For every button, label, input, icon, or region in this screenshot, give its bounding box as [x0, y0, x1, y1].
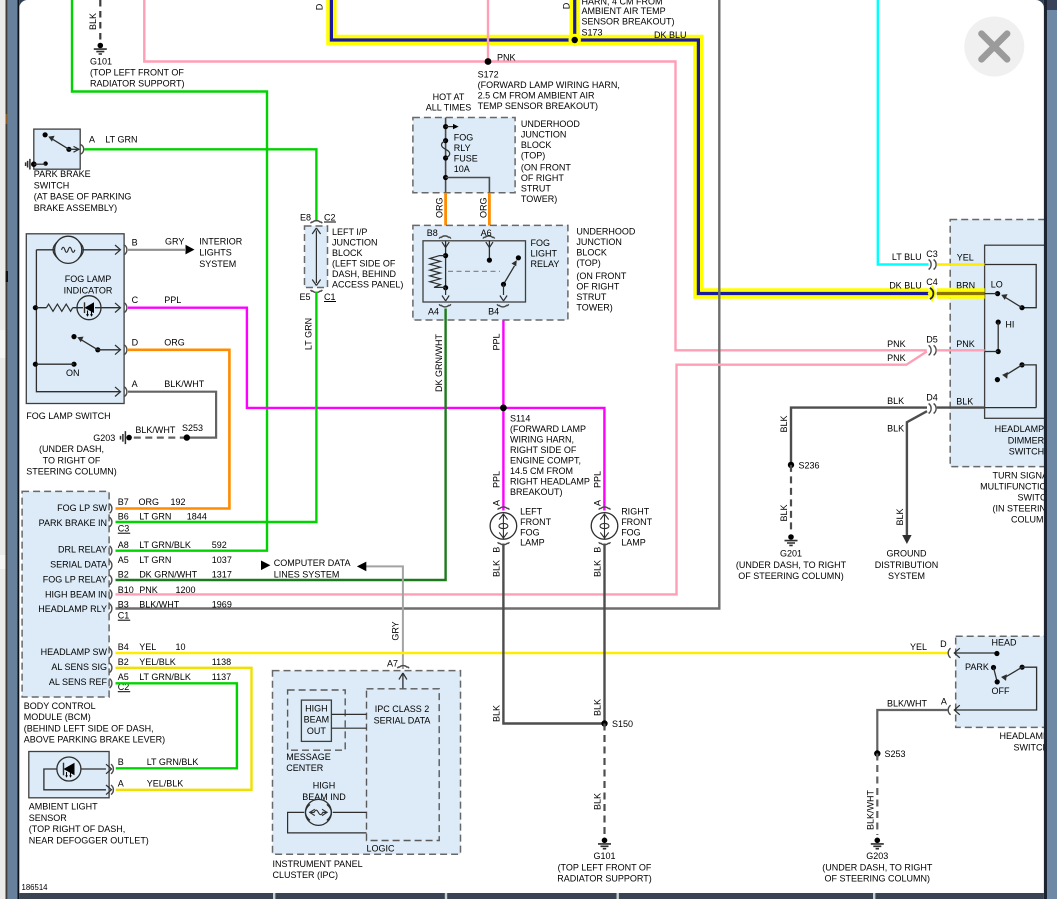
svg-text:HEAD: HEAD: [992, 638, 1018, 648]
svg-text:D: D: [132, 337, 139, 347]
svg-text:G203: G203: [93, 433, 115, 443]
wire BLK/WHT 1969 vertical from top to BCM B3: [116, 0, 720, 609]
svg-text:B8: B8: [427, 228, 438, 238]
connector C3 arcs: [929, 260, 937, 270]
page chrome: bottom bar: [19, 893, 1044, 899]
svg-text:FOG: FOG: [531, 238, 551, 248]
svg-text:C3: C3: [926, 249, 938, 259]
svg-text:(TOP LEFT FRONT OF: (TOP LEFT FRONT OF: [90, 68, 184, 78]
wire ORG fog switch D to BCM B7: [116, 350, 230, 509]
svg-text:(BEHIND LEFT SIDE OF DASH,: (BEHIND LEFT SIDE OF DASH,: [24, 723, 154, 733]
connector arc B8: [439, 236, 451, 239]
svg-text:SWITCH: SWITCH: [1009, 447, 1045, 457]
wire PNK BCM B10 to D5: [116, 352, 927, 595]
headlamp switch internals: [955, 651, 1037, 710]
svg-text:B: B: [492, 547, 502, 553]
ground distribution arrowhead: [902, 535, 911, 544]
svg-text:1317: 1317: [212, 569, 232, 579]
svg-text:G101: G101: [593, 851, 615, 861]
svg-text:AMBIENT AIR TEMP: AMBIENT AIR TEMP: [582, 6, 666, 16]
high beam out box: [301, 700, 331, 741]
label G203 right note: [822, 851, 933, 884]
svg-text:HEADLAMP SW: HEADLAMP SW: [41, 647, 108, 657]
svg-text:B4: B4: [488, 307, 499, 317]
label S172 note: [478, 70, 620, 112]
label FOG LIGHT RELAY: [531, 238, 560, 269]
wire LT GRN park brake to E8: [85, 149, 317, 221]
body control module BCM box: [22, 491, 109, 697]
svg-text:C1: C1: [324, 292, 336, 302]
svg-text:DRL RELAY: DRL RELAY: [58, 545, 107, 555]
ground G203 (right): [871, 838, 884, 849]
svg-text:D5: D5: [926, 335, 938, 345]
svg-text:DK GRN/WHT: DK GRN/WHT: [139, 569, 197, 579]
svg-text:LINES SYSTEM: LINES SYSTEM: [274, 569, 340, 579]
svg-text:HEADLAMP: HEADLAMP: [995, 424, 1045, 434]
svg-text:1844: 1844: [187, 512, 207, 522]
svg-text:A: A: [132, 379, 138, 389]
svg-text:FUSE: FUSE: [454, 153, 478, 163]
wires high beam out to logic: [331, 714, 366, 728]
label pin A / LT GRN (park brake): [89, 134, 137, 144]
svg-text:B6: B6: [118, 512, 129, 522]
label A5 LT GRN 1037: [118, 555, 232, 565]
svg-text:ABOVE PARKING BRAKE LEVER): ABOVE PARKING BRAKE LEVER): [24, 735, 165, 745]
ground G101 (top left): [94, 43, 107, 54]
svg-text:TEMP SENSOR BREAKOUT): TEMP SENSOR BREAKOUT): [478, 101, 598, 111]
wire LT GRN/BLK 592 A8 (DRL relay) long riser: [72, 0, 267, 551]
svg-text:RLY: RLY: [454, 143, 471, 153]
svg-text:BLK: BLK: [895, 508, 905, 525]
svg-text:A4: A4: [428, 307, 439, 317]
svg-text:A8: A8: [118, 540, 129, 550]
svg-text:RADIATOR SUPPORT): RADIATOR SUPPORT): [90, 79, 185, 89]
svg-text:(UNDER DASH,: (UNDER DASH,: [39, 444, 104, 454]
close button: [964, 17, 1024, 77]
svg-text:D4: D4: [926, 393, 938, 403]
label C2 (underlined): [324, 212, 336, 222]
BCM pin arcs: [110, 504, 112, 688]
svg-text:C3: C3: [118, 524, 130, 534]
park brake switch: [26, 129, 84, 169]
svg-text:BLK: BLK: [779, 504, 789, 521]
label C1 (underlined, BCM): [118, 611, 130, 621]
label HEADLAMP DIMMER SWITCH: [995, 424, 1045, 457]
wire LT GRN/BLK 1137 to ambient sensor B: [116, 683, 237, 768]
svg-text:S114: S114: [510, 414, 530, 424]
svg-text:YEL: YEL: [139, 642, 156, 652]
splice S172: [485, 58, 492, 65]
wire BLK D4 to ground distribution: [907, 411, 927, 535]
svg-text:AL SENS REF: AL SENS REF: [49, 677, 108, 687]
svg-text:PNK: PNK: [887, 353, 906, 363]
underhood junction block (relay) outer: [413, 225, 568, 320]
svg-text:NEAR DEFOGGER OUTLET): NEAR DEFOGGER OUTLET): [29, 835, 149, 845]
dimmer switch internals: [985, 265, 1037, 408]
svg-text:DASH, BEHIND: DASH, BEHIND: [332, 269, 397, 279]
svg-text:AMBIENT LIGHT: AMBIENT LIGHT: [29, 802, 98, 812]
fog light relay inner box: [423, 241, 526, 302]
svg-text:BLK/WHT: BLK/WHT: [139, 599, 180, 609]
label HIGH BEAM OUT: [304, 703, 330, 736]
svg-text:LT GRN/BLK: LT GRN/BLK: [147, 757, 199, 767]
label HOT AT ALL TIMES: [426, 92, 472, 113]
svg-text:RIGHT SIDE OF: RIGHT SIDE OF: [510, 445, 577, 455]
svg-text:FOG LP RELAY: FOG LP RELAY: [43, 575, 107, 585]
svg-text:UNDERHOOD: UNDERHOOD: [521, 119, 581, 129]
svg-text:OF RIGHT: OF RIGHT: [521, 173, 564, 183]
svg-text:LAMP: LAMP: [520, 538, 545, 548]
label G101 bottom note: [557, 851, 652, 884]
wire BLK right fog lamp to S150: [603, 544, 605, 724]
svg-text:(TOP RIGHT OF DASH,: (TOP RIGHT OF DASH,: [29, 824, 126, 834]
svg-text:14.5 CM FROM: 14.5 CM FROM: [510, 466, 573, 476]
connector arcs ambient sensor: [111, 764, 113, 794]
svg-text:RIGHT: RIGHT: [621, 507, 650, 517]
svg-text:2.5 CM FROM AMBIENT AIR: 2.5 CM FROM AMBIENT AIR: [478, 91, 595, 101]
svg-text:GRY: GRY: [391, 621, 401, 640]
svg-text:INTERIOR: INTERIOR: [199, 236, 243, 246]
label C2 (underlined, BCM): [118, 682, 130, 692]
wire ORG fuse to relay B8: [444, 193, 447, 231]
connector arc A7: [397, 666, 409, 669]
right front fog lamp: [591, 507, 618, 545]
svg-text:S172: S172: [478, 70, 499, 80]
svg-text:ORG: ORG: [139, 497, 160, 507]
label G201 note: [736, 549, 847, 582]
label S173 harness note: [582, 0, 675, 38]
connector E5/C1 arc: [311, 290, 323, 293]
svg-text:ORG: ORG: [435, 197, 445, 218]
wire GRY serial data to IPC A7: [365, 566, 403, 669]
svg-text:SENSOR BREAKOUT): SENSOR BREAKOUT): [582, 17, 675, 27]
svg-text:SENSOR: SENSOR: [29, 813, 68, 823]
svg-text:HIGH BEAM IN: HIGH BEAM IN: [45, 590, 107, 600]
label G101 top note: [90, 57, 185, 89]
svg-text:B: B: [132, 237, 138, 247]
svg-text:C1: C1: [118, 611, 130, 621]
label S114 note: [510, 414, 590, 498]
svg-text:1138: 1138: [212, 657, 231, 667]
svg-text:PPL: PPL: [492, 471, 502, 488]
svg-text:SWITCH: SWITCH: [1014, 742, 1050, 752]
svg-text:B3: B3: [118, 599, 129, 609]
svg-text:OF STEERING COLUMN): OF STEERING COLUMN): [825, 874, 931, 884]
svg-text:192: 192: [171, 497, 186, 507]
svg-text:PARK BRAKE IN: PARK BRAKE IN: [39, 518, 107, 528]
wire PNK from top to D5: [144, 0, 927, 350]
svg-text:HOT AT: HOT AT: [433, 92, 465, 102]
svg-text:LT GRN: LT GRN: [105, 134, 137, 144]
splice S114: [500, 405, 507, 412]
svg-text:BEAM: BEAM: [304, 715, 330, 725]
wire BLK dashed to G101 top: [99, 0, 101, 41]
label park brake switch: [34, 169, 132, 213]
svg-text:FRONT: FRONT: [520, 517, 551, 527]
svg-text:A6: A6: [481, 228, 492, 238]
wire YEL C3 to dimmer: [937, 263, 985, 265]
svg-text:FOG: FOG: [621, 527, 641, 537]
interior lights arrow: [186, 245, 195, 255]
svg-text:A: A: [593, 500, 603, 506]
splice S150: [601, 720, 607, 726]
svg-text:PNK: PNK: [139, 585, 158, 595]
wire PNK drop to S172: [487, 0, 489, 62]
underhood junction block (fuse): [413, 118, 515, 193]
svg-text:RIGHT HEADLAMP: RIGHT HEADLAMP: [510, 477, 590, 487]
svg-text:G203: G203: [866, 851, 888, 861]
label UNDERHOOD JUNCTION BLOCK (fuse) note: [521, 119, 581, 204]
svg-text:TOWER): TOWER): [576, 302, 612, 312]
label G203 left note: [26, 433, 117, 477]
svg-text:(LEFT SIDE OF: (LEFT SIDE OF: [332, 259, 396, 269]
svg-text:BLK/WHT: BLK/WHT: [887, 699, 928, 709]
label FOG RLY FUSE 10A: [454, 132, 478, 174]
label A8 LT GRN/BLK 592: [118, 540, 227, 550]
svg-text:RELAY: RELAY: [531, 259, 560, 269]
svg-text:INSTRUMENT PANEL: INSTRUMENT PANEL: [273, 859, 363, 869]
svg-text:LT GRN/BLK: LT GRN/BLK: [139, 672, 191, 682]
wire BLK/WHT fog switch A to S253: [128, 392, 216, 438]
svg-text:DIMMER: DIMMER: [1008, 435, 1045, 445]
label UNDERHOOD JUNCTION BLOCK (relay) note: [576, 227, 636, 313]
svg-text:BLOCK: BLOCK: [576, 248, 607, 258]
svg-text:(TOP LEFT FRONT OF: (TOP LEFT FRONT OF: [558, 862, 652, 872]
label B4 YEL 10: [118, 642, 186, 652]
svg-text:HI: HI: [1005, 320, 1014, 330]
connector arcs fog lamp switch pins: [115, 245, 127, 397]
svg-text:MULTIFUNCTION: MULTIFUNCTION: [980, 482, 1053, 492]
relay coil and contacts: [430, 241, 521, 301]
IPC logic inner box: [367, 689, 440, 841]
svg-text:RADIATOR SUPPORT): RADIATOR SUPPORT): [557, 874, 652, 884]
svg-text:C2: C2: [324, 212, 336, 222]
svg-text:LT GRN: LT GRN: [304, 318, 314, 350]
wire DK BLU in YEL harness (thick) main run: [331, 0, 928, 294]
svg-text:(ON FRONT: (ON FRONT: [576, 271, 626, 281]
computer data arrow (left): [261, 561, 270, 571]
label LEFT FRONT FOG LAMP: [520, 507, 551, 548]
wire PPL from fog switch C to S114 run: [128, 308, 604, 511]
svg-text:S253: S253: [182, 423, 203, 433]
svg-text:FOG LAMP SWITCH: FOG LAMP SWITCH: [26, 411, 110, 421]
svg-text:(UNDER DASH, TO RIGHT: (UNDER DASH, TO RIGHT: [736, 560, 847, 570]
svg-text:BLOCK: BLOCK: [332, 248, 363, 258]
svg-text:AL SENS SIG: AL SENS SIG: [51, 662, 107, 672]
svg-text:FOG: FOG: [454, 132, 474, 142]
page chrome: left edge bars: [0, 0, 19, 899]
wire GRY to interior lights: [128, 249, 185, 251]
label GROUND DISTRIBUTION SYSTEM: [875, 549, 939, 582]
connector D arc (headlamp switch): [948, 648, 960, 658]
headlamp dimmer switch inner box: [985, 245, 1053, 418]
ground G203 (left): [121, 431, 132, 444]
connector arc A4: [439, 304, 451, 307]
label pin B LT GRN/BLK (ambient): [118, 757, 199, 767]
svg-text:ORG: ORG: [164, 337, 185, 347]
svg-text:FRONT: FRONT: [621, 517, 652, 527]
svg-text:B: B: [593, 547, 603, 553]
svg-text:ACCESS PANEL): ACCESS PANEL): [332, 280, 403, 290]
svg-text:DK GRN/WHT: DK GRN/WHT: [434, 334, 444, 392]
svg-text:BLK: BLK: [887, 424, 904, 434]
svg-text:(AT BASE OF PARKING: (AT BASE OF PARKING: [34, 192, 132, 202]
svg-text:1200: 1200: [176, 585, 196, 595]
svg-text:STRUT: STRUT: [576, 292, 606, 302]
svg-text:A5: A5: [118, 555, 129, 565]
label B2 YEL/BLK 1138: [118, 657, 231, 667]
svg-text:IPC CLASS 2: IPC CLASS 2: [375, 704, 430, 714]
wire YEL B4 to headlamp switch D: [116, 652, 949, 654]
svg-text:WIRING HARN,: WIRING HARN,: [510, 435, 574, 445]
svg-text:BLK: BLK: [88, 13, 98, 30]
label AMBIENT LIGHT SENSOR note: [29, 802, 149, 846]
svg-text:STRUT: STRUT: [521, 184, 551, 194]
svg-text:BLOCK: BLOCK: [521, 140, 552, 150]
svg-text:B2: B2: [118, 657, 129, 667]
wires indicator lamp loop to logic: [288, 812, 367, 833]
label RIGHT FRONT FOG LAMP: [621, 507, 652, 548]
svg-text:(FORWARD LAMP: (FORWARD LAMP: [510, 424, 586, 434]
svg-text:BLK: BLK: [593, 560, 603, 577]
svg-text:BLK/WHT: BLK/WHT: [866, 790, 876, 831]
svg-text:PPL: PPL: [593, 471, 603, 488]
wire PPL relay B4 through S114 to left fog lamp: [502, 309, 504, 511]
svg-text:UNDERHOOD: UNDERHOOD: [576, 227, 636, 237]
svg-text:B7: B7: [118, 497, 129, 507]
svg-text:GROUND: GROUND: [887, 549, 927, 559]
svg-text:HIGH: HIGH: [305, 703, 328, 713]
svg-text:BLK: BLK: [593, 793, 603, 810]
wire D drop to S173 (thick): [570, 0, 580, 38]
svg-text:BLK/WHT: BLK/WHT: [135, 425, 176, 435]
wire LT BLU from top to C3: [878, 0, 929, 265]
connector arc B4: [497, 304, 509, 307]
svg-text:MESSAGE: MESSAGE: [286, 752, 331, 762]
svg-text:A7: A7: [387, 659, 398, 669]
svg-text:BLK: BLK: [593, 699, 603, 716]
svg-text:GRY: GRY: [165, 236, 184, 246]
svg-text:B10: B10: [118, 585, 134, 595]
label C3 (underlined): [118, 524, 130, 534]
svg-text:HIGH: HIGH: [313, 781, 336, 791]
svg-text:LT BLU: LT BLU: [892, 252, 922, 262]
svg-text:592: 592: [212, 540, 227, 550]
computer data arrow (right): [357, 562, 366, 572]
label pin D ORG: [132, 337, 185, 347]
svg-text:ORG: ORG: [478, 197, 488, 218]
label IPC CLASS 2 SERIAL DATA: [374, 704, 431, 725]
splice S173: [569, 34, 581, 46]
wire BLK left fog lamp to S150: [503, 544, 604, 724]
wire BLK/WHT dashed S253 to G203: [876, 754, 878, 836]
label B3 BLK/WHT 1969: [118, 599, 232, 609]
svg-text:G101: G101: [90, 57, 112, 67]
label interior lights system: [199, 236, 243, 269]
svg-text:OF STEERING COLUMN): OF STEERING COLUMN): [738, 571, 844, 581]
svg-text:B: B: [118, 757, 124, 767]
high beam indicator lamp: [305, 799, 331, 825]
ground G101 (bottom): [598, 838, 611, 849]
wire PNK D5 to dimmer HI: [937, 349, 985, 351]
svg-text:TOWER): TOWER): [521, 194, 557, 204]
svg-text:E5: E5: [300, 292, 311, 302]
label pin C PPL: [132, 295, 182, 305]
svg-text:HEADLAMP RLY: HEADLAMP RLY: [38, 604, 107, 614]
wire BLK/WHT dashed S253 to G203: [131, 437, 187, 439]
svg-text:S236: S236: [799, 461, 820, 471]
svg-text:E8: E8: [300, 212, 311, 222]
connector D4 arcs: [929, 404, 937, 414]
wire DK GRN/WHT relay A4 to BCM B2: [116, 309, 446, 581]
svg-text:OUT: OUT: [307, 726, 327, 736]
svg-text:BLK: BLK: [779, 415, 789, 432]
svg-text:1037: 1037: [212, 555, 232, 565]
svg-text:C4: C4: [926, 277, 938, 287]
connector C4 (thick wire): [928, 285, 937, 303]
svg-text:CENTER: CENTER: [286, 763, 324, 773]
svg-text:DK BLU: DK BLU: [889, 281, 922, 291]
svg-text:10: 10: [176, 642, 186, 652]
svg-text:LIGHT: LIGHT: [531, 248, 558, 258]
svg-text:JUNCTION: JUNCTION: [521, 130, 567, 140]
svg-text:YEL/BLK: YEL/BLK: [147, 779, 184, 789]
label HEADLAMP SWITCH: [999, 731, 1049, 752]
instrument panel cluster outer box: [273, 671, 461, 855]
svg-text:LAMP: LAMP: [621, 538, 646, 548]
svg-text:LO: LO: [991, 280, 1003, 290]
svg-text:PARK: PARK: [965, 662, 989, 672]
svg-text:(FORWARD LAMP WIRING HARN,: (FORWARD LAMP WIRING HARN,: [478, 80, 620, 90]
svg-text:(UNDER DASH, TO RIGHT: (UNDER DASH, TO RIGHT: [822, 862, 933, 872]
svg-text:BLK: BLK: [956, 397, 973, 407]
svg-text:A: A: [941, 697, 947, 707]
svg-text:10A: 10A: [454, 164, 470, 174]
svg-text:(TOP): (TOP): [521, 151, 545, 161]
svg-text:SERIAL DATA: SERIAL DATA: [374, 715, 431, 725]
svg-text:OF RIGHT: OF RIGHT: [576, 281, 619, 291]
label INSTRUMENT PANEL CLUSTER: [273, 859, 363, 880]
headlamp dimmer switch outer box: [950, 220, 1056, 467]
label MESSAGE CENTER: [286, 752, 331, 773]
fog lamp switch: [26, 234, 124, 404]
wire BLK D4 to S236: [791, 408, 927, 465]
label TURN SIGNAL MULTIFUNCTION SWITCH note: [980, 471, 1053, 525]
svg-text:STEERING COLUMN): STEERING COLUMN): [26, 467, 117, 477]
svg-text:A5: A5: [118, 672, 129, 682]
connector E8/C2 arc: [311, 221, 323, 224]
svg-text:LT GRN/BLK: LT GRN/BLK: [139, 540, 191, 550]
label HIGH BEAM IND: [302, 781, 346, 802]
left front fog lamp: [490, 507, 517, 545]
svg-text:ENGINE COMPT,: ENGINE COMPT,: [510, 456, 581, 466]
svg-text:1969: 1969: [212, 599, 232, 609]
svg-text:S150: S150: [612, 719, 633, 729]
label B2 DK GRN/WHT 1317: [118, 569, 232, 579]
svg-text:LEFT: LEFT: [520, 507, 543, 517]
svg-text:ON: ON: [66, 368, 80, 378]
svg-text:HEADLAMP: HEADLAMP: [999, 731, 1049, 741]
page chrome: right edge bar: [1044, 0, 1057, 899]
wire BLK D4 to dimmer: [937, 406, 985, 408]
svg-text:D: D: [562, 2, 572, 9]
A7 entry arrow: [399, 673, 407, 689]
connector arc A6: [483, 236, 495, 239]
svg-text:B4: B4: [118, 642, 129, 652]
svg-text:YEL: YEL: [957, 253, 974, 263]
svg-text:PNK: PNK: [887, 339, 906, 349]
connector A arc (headlamp switch): [948, 705, 960, 715]
